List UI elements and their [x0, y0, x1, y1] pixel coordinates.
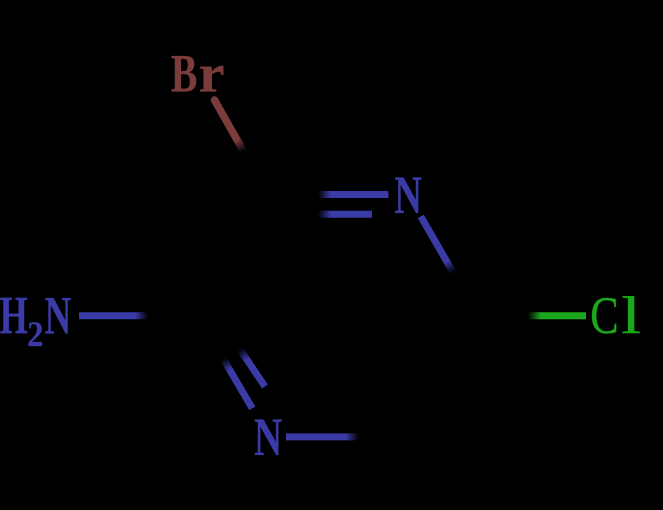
- svg-text:N: N: [254, 408, 282, 468]
- svg-text:C: C: [590, 287, 618, 345]
- svg-text:N: N: [394, 166, 422, 226]
- svg-text:B: B: [171, 45, 197, 104]
- svg-text:N: N: [45, 287, 72, 347]
- svg-text:r: r: [199, 44, 225, 103]
- svg-text:H: H: [0, 286, 28, 346]
- svg-text:l: l: [621, 287, 641, 345]
- svg-text:2: 2: [27, 315, 43, 355]
